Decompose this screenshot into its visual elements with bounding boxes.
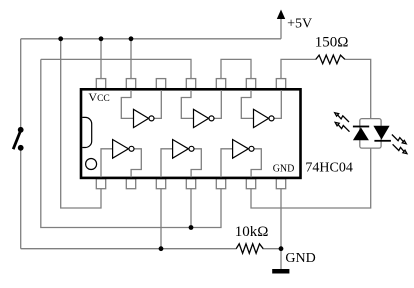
IC U1 pin stubs bottom: [96, 179, 285, 189]
wire inv U1E input from pin11: [181, 90, 193, 118]
resistor R1 150ohm zigzag: [316, 55, 345, 64]
light arrow up-left 1: [335, 113, 349, 122]
wire inv U1E output to pin10: [214, 90, 221, 118]
wire pin4 drop: [190, 189, 192, 228]
wire resistor R2 right lead: [263, 248, 281, 250]
inverter U1D triangle: [254, 109, 269, 127]
svg-text:74HC04: 74HC04: [305, 160, 352, 175]
wire +5V rail top: [21, 38, 281, 40]
switch S1: [13, 127, 23, 151]
ground symbol bar: [272, 269, 289, 274]
resistor R2 10k zigzag: [236, 244, 263, 254]
light arrow down-right 1: [392, 135, 406, 144]
wire inv U1D output to pin8: [274, 90, 281, 118]
wire switch top segment: [20, 39, 22, 130]
node junction dots: [58, 36, 283, 251]
inverter U1A triangle: [113, 140, 129, 159]
IC notch: [82, 117, 91, 147]
svg-text:150Ω: 150Ω: [315, 35, 349, 51]
wire inv U1D input from pin9: [241, 90, 253, 118]
node rail/pin13: [129, 36, 134, 41]
inverter U1E triangle: [194, 109, 209, 127]
svg-text:GND: GND: [273, 163, 295, 174]
internal wires gray: [101, 90, 281, 177]
IC U1 pin stubs top: [96, 79, 285, 89]
wire +5V riser to arrow: [280, 19, 282, 39]
wire switch bottom segment: [20, 148, 22, 249]
LED D1 left diode triangle: [353, 127, 369, 140]
IC pin1 indicator circle: [86, 159, 97, 170]
wire inv U1F output to pin12: [154, 90, 161, 118]
wire rail2 to pin11: [41, 59, 191, 78]
wire pin3 drop to bottom rail: [160, 189, 162, 249]
LED D1 right diode cathode bar: [374, 140, 391, 142]
node R2/GND: [279, 246, 284, 251]
LED D1 bicolor package: [360, 119, 381, 149]
wire node tie pin1 high: [61, 39, 101, 208]
wire inv U1A output to pin2: [131, 149, 141, 178]
wire pin7 GND drop: [280, 189, 282, 269]
inverter U1B triangle: [173, 140, 189, 159]
wire rail2 drop to pin4/pin5 net: [41, 59, 221, 227]
node rail/pin14: [99, 36, 104, 41]
light arrow up-left 2: [335, 122, 349, 131]
wire pin10 to pin9 hook: [221, 59, 251, 78]
svg-text:10kΩ: 10kΩ: [235, 224, 269, 240]
svg-text:+5V: +5V: [287, 17, 312, 32]
inverter U1F triangle: [113, 109, 274, 158]
light arrow down-right 2: [393, 144, 407, 153]
LED light arrows: [335, 113, 407, 154]
wire LED cathode to pin6: [251, 148, 371, 208]
wire bottom rail left: [21, 248, 237, 250]
wire inv U1B output to pin4: [191, 149, 201, 178]
wire rail to pin13: [130, 39, 132, 79]
power +5V arrow: [277, 10, 285, 20]
wire inv U1C output to pin6: [251, 149, 261, 178]
wire pin8 riser to resistor R1: [281, 59, 316, 78]
svg-text:GND: GND: [285, 251, 315, 266]
node pin3/bottom rail: [159, 246, 164, 251]
wire inv U1B input from pin3: [161, 149, 173, 178]
op IC U1 74HC04 body: [81, 89, 301, 178]
LED D1 left diode cathode bar: [353, 126, 369, 128]
node pin4/pin5: [189, 225, 194, 230]
wire inv U1F input from pin13: [121, 90, 133, 118]
inverter U1C triangle: [233, 140, 249, 159]
LED D1 right diode triangle: [373, 126, 389, 140]
wire inv U1A input from pin1: [101, 149, 113, 178]
wire rail to pin14 VCC: [100, 39, 102, 79]
wire inv U1C input from pin5: [221, 149, 233, 178]
node rail/pin1-net: [58, 36, 63, 41]
wire resistor R1 to LED anode: [345, 59, 371, 118]
